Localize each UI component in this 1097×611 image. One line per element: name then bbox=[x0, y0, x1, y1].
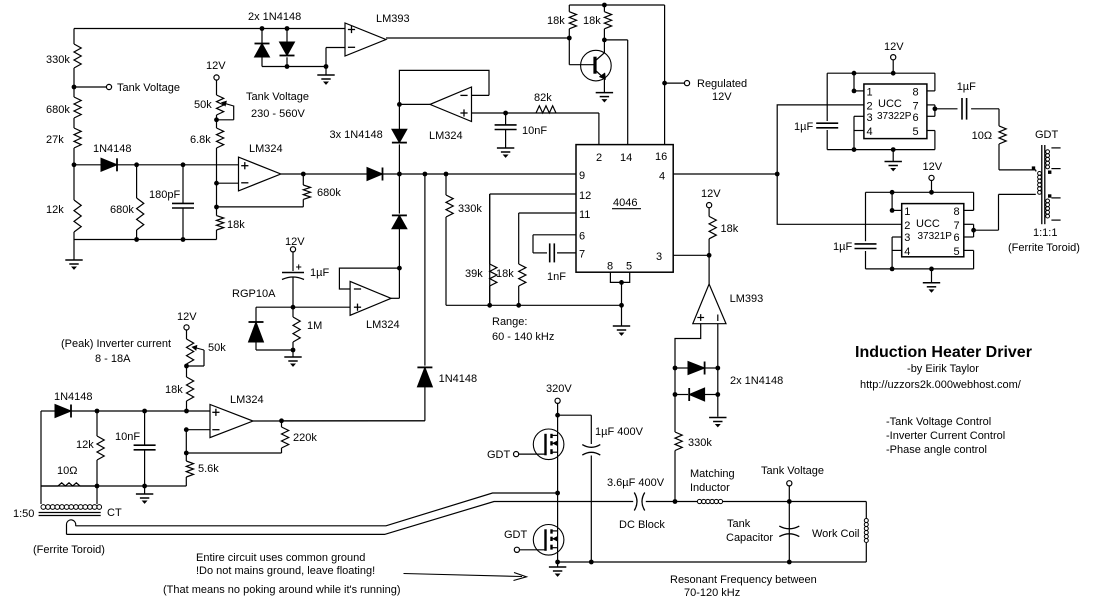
svg-text:LM324: LM324 bbox=[429, 130, 463, 142]
svg-text:1:50: 1:50 bbox=[13, 508, 34, 520]
svg-text:GDT: GDT bbox=[504, 529, 528, 541]
svg-text:39k: 39k bbox=[465, 268, 483, 280]
svg-text:GDT: GDT bbox=[487, 449, 511, 461]
svg-text:2: 2 bbox=[867, 101, 873, 113]
svg-text:12k: 12k bbox=[46, 204, 64, 216]
svg-text:18k: 18k bbox=[165, 384, 183, 396]
svg-text:Tank Voltage: Tank Voltage bbox=[246, 91, 309, 103]
svg-text:GDT: GDT bbox=[1035, 129, 1059, 141]
svg-text:50k: 50k bbox=[194, 99, 212, 111]
svg-text:10nF: 10nF bbox=[115, 431, 140, 443]
svg-text:Inductor: Inductor bbox=[690, 482, 730, 494]
svg-text:Induction Heater Driver: Induction Heater Driver bbox=[855, 344, 1032, 361]
svg-text:-Tank Voltage Control: -Tank Voltage Control bbox=[886, 416, 991, 428]
svg-text:1µF: 1µF bbox=[310, 267, 329, 279]
svg-text:Tank: Tank bbox=[727, 518, 751, 530]
svg-text:8: 8 bbox=[913, 87, 919, 99]
svg-text:LM324: LM324 bbox=[366, 319, 400, 331]
svg-text:11: 11 bbox=[579, 209, 590, 221]
svg-text:70-120 kHz: 70-120 kHz bbox=[684, 587, 740, 599]
svg-text:Tank Voltage: Tank Voltage bbox=[761, 465, 824, 477]
svg-text:7: 7 bbox=[579, 249, 585, 261]
svg-text:1µF: 1µF bbox=[833, 241, 852, 253]
svg-text:82k: 82k bbox=[534, 92, 552, 104]
svg-text:27k: 27k bbox=[46, 134, 64, 146]
svg-text:12: 12 bbox=[579, 190, 591, 202]
svg-text:Regulated: Regulated bbox=[697, 78, 747, 90]
svg-text:Entire circuit uses common gro: Entire circuit uses common ground bbox=[196, 552, 365, 564]
svg-text:12k: 12k bbox=[76, 439, 94, 451]
svg-text:3: 3 bbox=[656, 251, 662, 263]
svg-text:1: 1 bbox=[867, 87, 873, 99]
svg-text:6: 6 bbox=[954, 232, 960, 244]
svg-text:5: 5 bbox=[954, 246, 960, 258]
svg-text:Capacitor: Capacitor bbox=[726, 532, 773, 544]
svg-text:1µF: 1µF bbox=[794, 121, 813, 133]
svg-text:7: 7 bbox=[954, 220, 960, 232]
svg-text:14: 14 bbox=[620, 152, 632, 164]
svg-text:60 - 140 kHz: 60 - 140 kHz bbox=[492, 331, 554, 343]
svg-text:12V: 12V bbox=[285, 236, 305, 248]
svg-text:1N4148: 1N4148 bbox=[93, 143, 132, 155]
svg-text:RGP10A: RGP10A bbox=[232, 288, 276, 300]
svg-text:2: 2 bbox=[904, 220, 910, 232]
svg-text:8 - 18A: 8 - 18A bbox=[95, 353, 131, 365]
svg-text:18k: 18k bbox=[227, 219, 245, 231]
svg-text:12V: 12V bbox=[712, 91, 732, 103]
svg-text:Range:: Range: bbox=[492, 316, 527, 328]
svg-text:http://uzzors2k.000webhost.com: http://uzzors2k.000webhost.com/ bbox=[860, 379, 1022, 391]
svg-text:680k: 680k bbox=[110, 204, 134, 216]
svg-text:(Peak) Inverter current: (Peak) Inverter current bbox=[61, 338, 171, 350]
svg-text:680k: 680k bbox=[317, 187, 341, 199]
svg-text:12V: 12V bbox=[177, 311, 197, 323]
svg-text:4046: 4046 bbox=[613, 197, 637, 209]
svg-text:1nF: 1nF bbox=[547, 271, 566, 283]
svg-text:8: 8 bbox=[954, 206, 960, 218]
svg-text:3: 3 bbox=[867, 112, 873, 124]
svg-text:Matching: Matching bbox=[690, 468, 735, 480]
svg-text:1: 1 bbox=[904, 206, 910, 218]
svg-text:-by Eirik Taylor: -by Eirik Taylor bbox=[907, 363, 979, 375]
svg-text:6.8k: 6.8k bbox=[190, 134, 211, 146]
svg-text:UCC: UCC bbox=[878, 98, 902, 110]
svg-text:(Ferrite Toroid): (Ferrite Toroid) bbox=[1008, 242, 1080, 254]
svg-text:10nF: 10nF bbox=[522, 125, 547, 137]
svg-text:5: 5 bbox=[626, 261, 632, 273]
svg-text:(Ferrite Toroid): (Ferrite Toroid) bbox=[33, 544, 105, 556]
svg-text:Work Coil: Work Coil bbox=[812, 528, 859, 540]
svg-text:!Do not mains ground, leave fl: !Do not mains ground, leave floating! bbox=[196, 565, 375, 577]
svg-text:18k: 18k bbox=[721, 223, 739, 235]
svg-text:DC Block: DC Block bbox=[619, 519, 665, 531]
svg-text:16: 16 bbox=[655, 151, 667, 163]
svg-text:10Ω: 10Ω bbox=[972, 130, 992, 142]
svg-text:1µF 400V: 1µF 400V bbox=[595, 426, 644, 438]
svg-text:4: 4 bbox=[659, 171, 665, 183]
svg-text:12V: 12V bbox=[884, 41, 904, 53]
svg-text:LM324: LM324 bbox=[230, 394, 264, 406]
svg-text:330k: 330k bbox=[46, 54, 70, 66]
svg-text:9: 9 bbox=[579, 170, 585, 182]
svg-text:4: 4 bbox=[904, 246, 910, 258]
svg-text:-Phase angle control: -Phase angle control bbox=[886, 444, 987, 456]
svg-text:230 - 560V: 230 - 560V bbox=[251, 108, 305, 120]
svg-text:50k: 50k bbox=[208, 342, 226, 354]
svg-text:180pF: 180pF bbox=[149, 189, 180, 201]
svg-text:1:1:1: 1:1:1 bbox=[1033, 227, 1057, 239]
svg-text:(That means no poking around w: (That means no poking around while it's … bbox=[163, 584, 401, 596]
svg-text:220k: 220k bbox=[293, 432, 317, 444]
svg-text:LM393: LM393 bbox=[376, 13, 410, 25]
svg-text:5.6k: 5.6k bbox=[198, 463, 219, 475]
svg-text:3: 3 bbox=[904, 232, 910, 244]
svg-text:330k: 330k bbox=[688, 437, 712, 449]
svg-text:8: 8 bbox=[607, 261, 613, 273]
svg-text:12V: 12V bbox=[923, 161, 943, 173]
svg-text:1N4148: 1N4148 bbox=[54, 391, 93, 403]
svg-text:LM324: LM324 bbox=[249, 143, 283, 155]
svg-text:3x 1N4148: 3x 1N4148 bbox=[330, 129, 383, 141]
svg-text:18k: 18k bbox=[496, 268, 514, 280]
svg-text:6: 6 bbox=[579, 231, 585, 243]
svg-text:CT: CT bbox=[107, 507, 122, 519]
svg-text:LM393: LM393 bbox=[730, 293, 764, 305]
svg-text:330k: 330k bbox=[458, 203, 482, 215]
svg-text:6: 6 bbox=[913, 112, 919, 124]
svg-text:12V: 12V bbox=[701, 188, 721, 200]
svg-text:1N4148: 1N4148 bbox=[439, 373, 478, 385]
svg-text:1M: 1M bbox=[307, 320, 322, 332]
svg-text:2x 1N4148: 2x 1N4148 bbox=[248, 11, 301, 23]
svg-text:7: 7 bbox=[913, 101, 919, 113]
svg-text:1µF: 1µF bbox=[957, 81, 976, 93]
svg-text:Tank Voltage: Tank Voltage bbox=[117, 82, 180, 94]
svg-text:18k: 18k bbox=[547, 15, 565, 27]
svg-text:2x 1N4148: 2x 1N4148 bbox=[730, 375, 783, 387]
svg-text:-Inverter Current Control: -Inverter Current Control bbox=[886, 430, 1005, 442]
svg-text:UCC: UCC bbox=[916, 218, 940, 230]
svg-text:680k: 680k bbox=[46, 104, 70, 116]
svg-text:3.6µF 400V: 3.6µF 400V bbox=[607, 477, 665, 489]
svg-text:10Ω: 10Ω bbox=[57, 465, 77, 477]
svg-text:12V: 12V bbox=[206, 60, 226, 72]
svg-text:37321P: 37321P bbox=[918, 231, 953, 242]
svg-text:37322P: 37322P bbox=[877, 111, 912, 122]
svg-text:4: 4 bbox=[867, 126, 873, 138]
svg-text:320V: 320V bbox=[546, 383, 572, 395]
svg-text:5: 5 bbox=[913, 126, 919, 138]
svg-text:2: 2 bbox=[596, 152, 602, 164]
svg-text:Resonant Frequency between: Resonant Frequency between bbox=[670, 574, 817, 586]
svg-text:18k: 18k bbox=[583, 15, 601, 27]
